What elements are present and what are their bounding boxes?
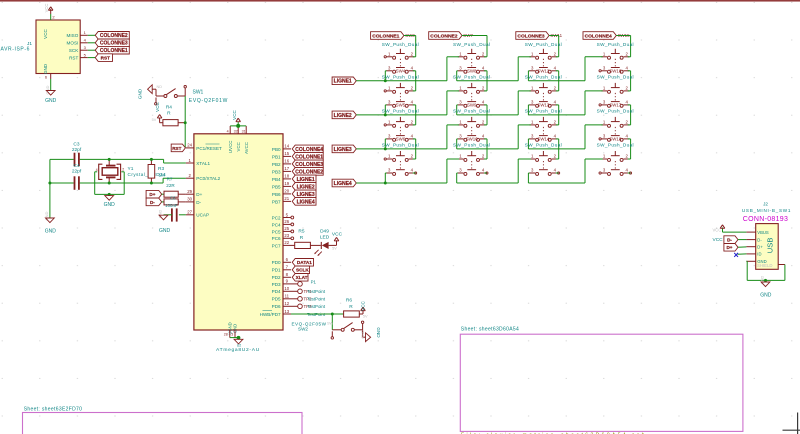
svg-text:LIGNE3: LIGNE3 — [334, 147, 352, 153]
svg-text:15: 15 — [284, 151, 289, 156]
svg-text:PD4: PD4 — [272, 289, 281, 294]
svg-text:GND: GND — [104, 202, 116, 208]
svg-text:R: R — [349, 304, 353, 310]
wire COLONNE3 from label — [549, 36, 559, 57]
resistor R3 — [148, 159, 165, 183]
svg-text:LIGNE1: LIGNE1 — [334, 79, 352, 85]
wire row jog up to pin1 — [447, 57, 459, 81]
wire row jog down from pin3 — [457, 71, 458, 81]
resistor R7 — [162, 177, 186, 198]
svg-text:Sheet: sheet63D60A54: Sheet: sheet63D60A54 — [461, 326, 519, 332]
svg-text:SW_Push_Dual: SW_Push_Dual — [453, 74, 490, 79]
svg-text:PD2: PD2 — [272, 275, 281, 280]
svg-text:RST: RST — [101, 56, 111, 61]
svg-text:SCK: SCK — [69, 48, 79, 53]
MCU top power pins — [227, 126, 249, 154]
svg-text:28: 28 — [224, 333, 228, 337]
svg-text:GND: GND — [361, 330, 365, 339]
wire ID — [738, 253, 747, 255]
resistor R5 — [291, 229, 321, 249]
wire column stubs — [413, 91, 416, 125]
svg-text:VCC: VCC — [236, 142, 241, 151]
svg-text:PC6: PC6 — [272, 236, 281, 241]
svg-text:14: 14 — [284, 144, 289, 149]
wire row jog up to pin1 — [518, 125, 531, 149]
wire row jog up to pin1 — [447, 91, 459, 115]
junction — [236, 124, 240, 128]
switch SW5 SW_Push_Dual — [382, 102, 419, 141]
svg-text:R: R — [167, 111, 171, 117]
svg-text:TestPoint: TestPoint — [307, 297, 326, 302]
svg-text:PB4: PB4 — [272, 177, 281, 182]
svg-text:LIGNE2: LIGNE2 — [334, 113, 352, 119]
svg-text:SW18: SW18 — [609, 136, 622, 141]
svg-text:10: 10 — [284, 286, 289, 291]
svg-text:GND: GND — [376, 327, 381, 338]
svg-text:4: 4 — [227, 129, 229, 133]
wire column stubs — [484, 57, 487, 91]
svg-text:SW6: SW6 — [396, 136, 406, 141]
wire left vertical to GND — [49, 159, 51, 218]
svg-text:21: 21 — [284, 196, 289, 201]
wire row jog up to pin1 — [447, 125, 459, 149]
svg-text:PD0: PD0 — [272, 260, 281, 265]
svg-text:PB5: PB5 — [272, 184, 281, 189]
svg-text:100nF: 100nF — [165, 203, 178, 208]
svg-text:LIGNE4: LIGNE4 — [297, 199, 315, 205]
label D+ J2 — [724, 244, 738, 252]
svg-text:COLONNE4: COLONNE4 — [295, 147, 323, 153]
sheet sheet63D60A54 — [460, 326, 743, 434]
svg-text:USB: USB — [766, 238, 775, 254]
label RST at MCU — [171, 144, 185, 152]
wire column stubs — [484, 125, 487, 159]
switch SW10 SW_Push_Dual — [453, 136, 490, 175]
svg-text:GND: GND — [138, 88, 143, 99]
svg-text:VCC: VCC — [332, 231, 343, 237]
ground GND J1 — [45, 85, 57, 104]
sheet sheet63E2FD70 — [23, 406, 303, 434]
svg-text:SW_Push_Dual: SW_Push_Dual — [382, 109, 419, 114]
junction — [108, 158, 111, 161]
junction row — [384, 147, 387, 150]
wire — [230, 337, 239, 339]
switch SW13 SW_Push_Dual — [525, 102, 562, 141]
label LIGNE1 at MCU — [292, 175, 316, 183]
svg-text:C4: C4 — [73, 163, 79, 169]
label COLONNE3 at MCU — [292, 160, 323, 168]
label COLONNE2 matrix — [429, 32, 462, 40]
svg-text:27: 27 — [187, 210, 192, 215]
svg-text:SHIELD: SHIELD — [757, 263, 773, 268]
wire row jog down from pin3 — [385, 139, 386, 149]
wire LIGNE4 row segments — [356, 182, 585, 184]
svg-text:LED: LED — [320, 235, 330, 241]
svg-text:SW10: SW10 — [466, 136, 479, 141]
svg-text:PD1: PD1 — [272, 268, 281, 273]
svg-text:5V: 5V — [152, 118, 157, 122]
page frame corner — [783, 413, 800, 434]
svg-text:SW1: SW1 — [193, 90, 204, 96]
wire row jog down from pin3 — [528, 105, 529, 115]
svg-text:PB2: PB2 — [272, 162, 281, 167]
wire row jog down from pin3 — [457, 105, 458, 115]
wire COLONNE1 from label — [404, 36, 416, 57]
wire column stubs — [556, 91, 559, 125]
MCU right pins PB — [272, 144, 291, 205]
svg-text:LIGNE4: LIGNE4 — [334, 181, 352, 187]
switch SW16 SW_Push_Dual — [597, 68, 634, 107]
svg-text:22: 22 — [284, 240, 289, 245]
svg-text:25: 25 — [284, 226, 289, 231]
label COLONNE1 matrix — [371, 32, 404, 40]
svg-text:AVR-ISP-6: AVR-ISP-6 — [1, 47, 30, 53]
svg-text:Y1: Y1 — [128, 166, 134, 172]
svg-text:13: 13 — [284, 309, 289, 314]
wire — [88, 57, 95, 59]
svg-text:2: 2 — [122, 167, 124, 171]
label LIGNE2 at MCU — [292, 183, 316, 191]
svg-text:GND: GND — [45, 229, 57, 235]
wire column stubs — [628, 159, 631, 173]
MCU right pins PC — [272, 212, 294, 248]
svg-text:COLONNE4: COLONNE4 — [585, 33, 612, 39]
svg-text:SW_Push_Dual: SW_Push_Dual — [453, 143, 490, 148]
no-connect X on ID — [734, 253, 738, 257]
svg-text:COLONNE1: COLONNE1 — [372, 33, 399, 39]
switch SW8 SW_Push_Dual — [453, 68, 490, 107]
svg-text:SW8: SW8 — [467, 68, 477, 73]
svg-text:29: 29 — [187, 189, 192, 194]
svg-text:SW_Push_Dual: SW_Push_Dual — [525, 42, 562, 47]
svg-text:SW: SW — [327, 322, 334, 326]
svg-text:D49: D49 — [320, 228, 329, 234]
ground GND SW2 — [361, 327, 381, 341]
wire row jog down from pin3 — [528, 139, 529, 149]
svg-text:LIGNE1: LIGNE1 — [297, 177, 315, 183]
switch SW12 SW_Push_Dual — [525, 68, 562, 107]
wire COLONNE2 from label — [462, 36, 487, 57]
svg-text:D+: D+ — [757, 245, 763, 250]
wire VCC top — [230, 125, 246, 127]
wire column stubs — [556, 125, 559, 159]
wire RST vertical — [184, 96, 186, 148]
svg-text:TestPoint: TestPoint — [307, 289, 326, 294]
wire — [738, 246, 746, 248]
svg-text:5V: 5V — [332, 246, 337, 250]
crystal Y1 Crystal_GND24 — [96, 159, 167, 183]
label COLONNE1 J1 — [95, 46, 129, 54]
svg-text:D-: D- — [150, 200, 155, 205]
svg-text:GND: GND — [45, 98, 57, 104]
svg-text:GND: GND — [43, 63, 48, 74]
label COLONNE3 matrix — [516, 32, 549, 40]
svg-text:VCC: VCC — [713, 228, 722, 233]
svg-text:SW_Push_Dual: SW_Push_Dual — [525, 143, 562, 148]
svg-text:SW9: SW9 — [467, 102, 477, 107]
label LIGNE4 matrix — [332, 179, 356, 187]
svg-text:ATmega8U2-AU: ATmega8U2-AU — [216, 347, 260, 353]
svg-text:COLONNE3: COLONNE3 — [517, 33, 544, 39]
wire — [50, 79, 52, 91]
LED D49 — [314, 228, 336, 256]
wire XTAL bottom net — [50, 178, 186, 183]
junction R4/RST — [184, 121, 187, 124]
wire column stubs — [484, 91, 487, 125]
testpoints P3/TP on PD3-PD6 — [291, 280, 326, 317]
wire LIGNE3 row segments — [356, 148, 585, 150]
svg-text:SW14: SW14 — [537, 136, 550, 141]
svg-text:PD6: PD6 — [272, 304, 281, 309]
junction — [331, 313, 334, 316]
svg-text:24: 24 — [187, 143, 192, 148]
svg-text:SW5: SW5 — [396, 102, 406, 107]
svg-text:CONN-08193: CONN-08193 — [743, 216, 788, 223]
svg-text:SW12: SW12 — [537, 68, 550, 73]
wire SW2 vertical — [331, 314, 333, 330]
wire row jog down from pin3 — [385, 71, 386, 81]
switch SW2 EVQ-Q2F05W — [291, 321, 363, 339]
power flag VCC J1 — [44, 4, 53, 20]
power flag VCC R4 — [152, 115, 162, 123]
svg-text:PB7: PB7 — [272, 199, 281, 204]
svg-text:COLONNE3: COLONNE3 — [295, 162, 323, 168]
junction — [48, 182, 51, 185]
svg-text:COLONNE1: COLONNE1 — [100, 48, 128, 54]
switch SW14 SW_Push_Dual — [525, 136, 562, 175]
svg-text:SW_Push_Dual: SW_Push_Dual — [453, 42, 490, 47]
svg-text:5V: 5V — [363, 315, 368, 319]
svg-text:SW_Push_Dual: SW_Push_Dual — [382, 143, 419, 148]
svg-text:COLONNE2: COLONNE2 — [295, 169, 323, 175]
label COLONNE2 J1 — [95, 32, 129, 40]
capacitor C5 UCAP — [164, 208, 186, 221]
wire VBUS to VCC — [723, 228, 747, 233]
svg-text:PB0: PB0 — [272, 147, 281, 152]
wire row jog up to pin1 — [585, 91, 603, 115]
MCU bottom pins UGND GND — [224, 322, 238, 337]
wire row jog up to pin1 — [518, 57, 531, 81]
svg-text:23: 23 — [284, 233, 289, 238]
label D+ — [146, 190, 162, 198]
wire row jog up to pin1 — [585, 125, 603, 149]
svg-text:D+: D+ — [726, 245, 732, 250]
resistor R6 — [344, 298, 363, 318]
svg-text:R: R — [300, 235, 304, 241]
wire — [88, 42, 95, 44]
junction — [108, 193, 111, 196]
junction — [108, 182, 111, 185]
wire column stubs — [484, 159, 487, 173]
top border line — [0, 0, 800, 2]
label COLONNE4 at MCU — [292, 145, 323, 153]
svg-text:R3: R3 — [158, 166, 164, 172]
wire row jog up to pin1 — [518, 159, 531, 183]
wire row jog down from pin3 — [385, 105, 386, 115]
wire PD7 to R6 — [291, 313, 344, 315]
label LIGNE2 matrix — [332, 111, 356, 119]
svg-text:MOSI: MOSI — [67, 41, 79, 46]
svg-text:SCLK: SCLK — [296, 268, 309, 273]
connector J2 USB_MINI-B_SW1 CONN-08193 — [742, 202, 791, 270]
svg-text:31: 31 — [242, 129, 246, 133]
svg-text:SW17: SW17 — [609, 102, 622, 107]
switch SW4 SW_Push_Dual — [382, 68, 419, 107]
svg-text:4: 4 — [96, 168, 98, 172]
MCU U1 ATmega8U2-AU body — [194, 134, 283, 330]
svg-text:VCC: VCC — [361, 300, 366, 310]
label RST J1 — [95, 54, 112, 62]
svg-text:SW_Push_Dual: SW_Push_Dual — [382, 42, 419, 47]
svg-text:USB_MINI-B_SW1: USB_MINI-B_SW1 — [742, 208, 791, 213]
wire — [88, 34, 95, 36]
svg-text:P1: P1 — [311, 280, 317, 285]
svg-text:26: 26 — [284, 219, 289, 224]
svg-text:PB6: PB6 — [272, 192, 281, 197]
svg-text:SW_Push_Dual: SW_Push_Dual — [525, 109, 562, 114]
svg-text:MISO: MISO — [67, 33, 79, 38]
wire — [738, 239, 746, 241]
svg-text:LIGNE2: LIGNE2 — [297, 184, 315, 190]
label D- — [146, 198, 162, 206]
switch SW7 SW_Push_Dual — [453, 42, 490, 73]
MCU right pins PD — [260, 257, 291, 317]
svg-text:PB3: PB3 — [272, 169, 281, 174]
wire row jog up to pin1 — [447, 159, 459, 183]
switch SW1 EVQ-Q2F01W — [155, 86, 228, 112]
svg-text:SW_Push_Dual: SW_Push_Dual — [382, 74, 419, 79]
svg-text:1M: 1M — [159, 172, 166, 177]
svg-text:VCC: VCC — [155, 101, 160, 111]
svg-text:32: 32 — [234, 129, 238, 133]
wire row jog down from pin3 — [528, 71, 529, 81]
svg-text:SW_Push_Dual: SW_Push_Dual — [525, 74, 562, 79]
svg-text:C3: C3 — [73, 142, 79, 148]
junction row — [384, 113, 387, 116]
svg-text:D-: D- — [196, 200, 201, 205]
svg-text:C6: C6 — [170, 196, 176, 201]
power flag VCC MCU — [232, 109, 240, 125]
label COLONNE4 matrix — [583, 32, 616, 40]
junction — [150, 182, 153, 185]
wire row jog up to pin1 — [518, 91, 531, 115]
svg-text:SW4: SW4 — [396, 68, 406, 73]
wire LIGNE1 row segments — [356, 80, 585, 82]
label SCLK — [292, 266, 309, 274]
svg-text:22pf: 22pf — [72, 147, 82, 153]
svg-text:R5: R5 — [298, 229, 304, 235]
svg-text:11: 11 — [285, 294, 290, 299]
label DATA1 — [292, 259, 313, 267]
svg-text:PC5: PC5 — [272, 229, 281, 234]
svg-text:19: 19 — [284, 181, 289, 186]
wire GND/SHIELD to ground — [746, 261, 785, 280]
switch SW17 SW_Push_Dual — [597, 102, 634, 141]
svg-text:ND: ND — [157, 85, 163, 89]
wire row jog up to pin1 — [585, 159, 603, 183]
connector J1 AVR-ISP-6 — [1, 15, 88, 80]
svg-text:SW13: SW13 — [537, 102, 550, 107]
wire column stubs — [413, 159, 416, 173]
svg-text:SW_Push_Dual: SW_Push_Dual — [597, 42, 634, 47]
label LIGNE4 at MCU — [292, 198, 316, 206]
svg-text:HWB/PD7: HWB/PD7 — [260, 312, 281, 317]
svg-text:COLONNE1: COLONNE1 — [295, 154, 323, 160]
svg-text:PD5: PD5 — [272, 297, 281, 302]
svg-text:SW_Push_Dual: SW_Push_Dual — [453, 109, 490, 114]
svg-text:3: 3 — [231, 333, 233, 337]
wire — [88, 49, 95, 51]
capacitor C3 — [72, 142, 82, 167]
wire COLONNE4 from label — [616, 36, 630, 57]
ground GND J2 — [760, 276, 772, 299]
svg-text:COLONNE2: COLONNE2 — [100, 33, 128, 39]
svg-text:D-: D- — [727, 238, 732, 243]
svg-text:EVQ-Q2F01W: EVQ-Q2F01W — [189, 98, 228, 104]
svg-text:DATA1: DATA1 — [297, 260, 312, 265]
svg-text:RST: RST — [69, 56, 78, 61]
svg-text:VBUS: VBUS — [757, 230, 769, 235]
label LIGNE1 matrix — [332, 77, 356, 85]
wire column stubs — [413, 125, 416, 159]
svg-text:GND: GND — [760, 293, 772, 299]
svg-text:VCC: VCC — [713, 237, 724, 243]
svg-text:LIGNE3: LIGNE3 — [297, 192, 315, 198]
label LIGNE3 matrix — [332, 145, 356, 153]
wire row jog down from pin3 — [385, 173, 386, 183]
wire LIGNE2 row segments — [356, 114, 585, 116]
svg-text:R4: R4 — [166, 105, 172, 111]
svg-text:UVCC: UVCC — [228, 141, 233, 153]
svg-text:22pf: 22pf — [72, 169, 82, 175]
label D- J2 — [724, 236, 738, 244]
svg-text:XLAT: XLAT — [296, 275, 308, 280]
svg-text:PC7: PC7 — [272, 243, 281, 248]
svg-text:ID: ID — [757, 252, 761, 257]
junction row — [384, 182, 387, 185]
switch SW6 SW_Push_Dual — [382, 136, 419, 175]
ground GND left — [44, 211, 56, 234]
svg-text:VCC: VCC — [232, 109, 237, 119]
wire row jog down from pin3 — [457, 139, 458, 149]
svg-text:AVCC: AVCC — [244, 142, 249, 154]
svg-text:30: 30 — [187, 197, 192, 202]
label COLONNE1 at MCU — [292, 153, 323, 161]
wire row jog up to pin1 — [585, 57, 603, 81]
ground GND SW1 — [138, 85, 163, 99]
switch SW11 SW_Push_Dual — [525, 42, 562, 73]
power flag VCC J2 — [713, 225, 725, 243]
svg-text:XTAL1: XTAL1 — [196, 161, 210, 166]
power flag VCC LED — [332, 231, 343, 250]
wire column stubs — [628, 57, 631, 91]
svg-text:GND: GND — [159, 228, 171, 234]
svg-text:Sheet: sheet63E2FD70: Sheet: sheet63E2FD70 — [24, 406, 83, 412]
svg-text:COLONNE2: COLONNE2 — [430, 33, 457, 39]
ground GND MCU — [234, 339, 243, 347]
wire column stubs — [556, 57, 559, 91]
svg-text:TestPoint: TestPoint — [307, 304, 326, 309]
svg-text:SW_Push_Dual: SW_Push_Dual — [597, 109, 634, 114]
svg-text:J2: J2 — [763, 202, 768, 207]
label LIGNE3 at MCU — [292, 190, 316, 198]
svg-text:D+: D+ — [149, 192, 155, 197]
wire XTAL top net — [50, 159, 186, 163]
label COLONNE3 J1 — [95, 39, 129, 47]
junction — [237, 336, 241, 340]
svg-text:COLONNE3: COLONNE3 — [100, 41, 128, 47]
switch SW9 SW_Push_Dual — [453, 102, 490, 141]
